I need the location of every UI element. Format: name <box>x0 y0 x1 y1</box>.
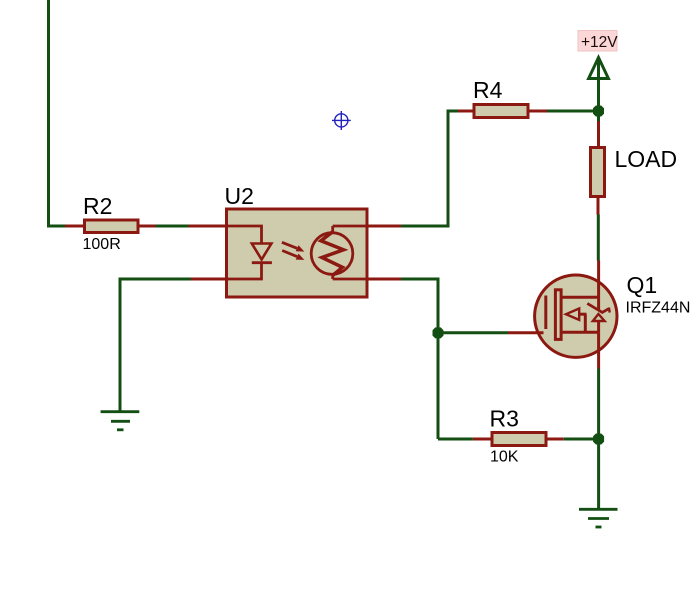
svg-text:100R: 100R <box>83 236 121 253</box>
LOAD top pin <box>597 121 600 147</box>
U2 LED top rail <box>226 226 262 243</box>
resistor LOAD body <box>591 148 605 197</box>
resistor R3 left pin <box>473 438 492 441</box>
U2 right top pin <box>369 225 402 228</box>
U2 LED triangle <box>252 244 272 260</box>
wire: horizontal net into R2 <box>47 225 65 228</box>
Q1 body diode cathode bar <box>587 303 609 312</box>
junction at gate <box>433 327 444 338</box>
U2 light arrow 1 <box>282 242 297 248</box>
resistor R3 body <box>492 433 546 446</box>
optocoupler U2 body <box>227 209 368 297</box>
power label +12V <box>578 31 617 52</box>
Q1 drain bar <box>561 296 599 299</box>
resistor R2 body <box>85 220 139 233</box>
wire: net U2 bottom to gate/R3 <box>401 279 438 439</box>
transistor Q1 body circle <box>535 275 617 357</box>
Q1 gate plate <box>544 296 547 330</box>
wire: net LOAD to Q1 drain <box>597 215 600 261</box>
resistor R4 body <box>474 105 528 118</box>
U2 bottom rail right <box>333 278 369 281</box>
Q1 substrate arrow <box>566 309 579 320</box>
wire: left vertical net from top edge <box>47 0 50 225</box>
Q1 drain pin vertical <box>597 261 600 311</box>
svg-text:R3: R3 <box>490 405 519 431</box>
wire: gate net <box>438 331 508 334</box>
wire: net R3 to source rail <box>564 438 599 441</box>
wire: net to R3 <box>438 438 473 441</box>
resistor R2 right pin <box>140 225 156 228</box>
wire: net U2 bottom-left to ground <box>120 279 191 411</box>
svg-text:+12V: +12V <box>581 34 618 51</box>
ground right <box>579 508 618 511</box>
ground left <box>101 410 140 413</box>
U2 LED cathode bar <box>252 261 272 264</box>
resistor R2 left pin <box>65 225 84 228</box>
U2 circle top stub <box>331 226 334 233</box>
svg-text:Q1: Q1 <box>627 272 658 298</box>
svg-text:U2: U2 <box>225 183 254 209</box>
power symbol +12V arrow <box>589 58 609 79</box>
wire: net R2 to U2 <box>156 225 189 228</box>
svg-text:R4: R4 <box>473 77 503 103</box>
op-to U2 left top pin <box>189 225 227 228</box>
resistor R3 right pin <box>548 438 564 441</box>
Q1 source pin vertical <box>597 332 600 368</box>
resistor R4 left pin <box>458 110 474 113</box>
junction at source/R3 <box>593 434 604 445</box>
U2 LED bottom rail <box>226 263 262 279</box>
U2 light arrow 2 <box>282 251 297 257</box>
U2 photocell circle <box>311 233 353 275</box>
junction at +12V rail <box>593 106 604 117</box>
svg-text:IRFZ44N: IRFZ44N <box>626 299 691 316</box>
wire: vertical to power terminal <box>597 60 600 121</box>
Q1 channel bar <box>555 290 561 340</box>
wire: net U2 top to R4 <box>401 111 458 226</box>
U2 top rail right <box>333 225 369 228</box>
U2 left bottom pin <box>191 278 226 281</box>
Q1 gate pin <box>508 331 544 334</box>
svg-text:10K: 10K <box>490 449 519 466</box>
U2 right bottom pin <box>369 278 402 281</box>
LOAD bottom pin <box>597 198 600 215</box>
U2 circle bottom stub <box>331 274 334 279</box>
Q1 body diode triangle <box>593 314 605 321</box>
Q1 body diode vertical link <box>597 321 600 332</box>
wire: source net down <box>597 369 600 510</box>
resistor R4 right pin <box>530 110 548 113</box>
svg-text:R2: R2 <box>83 193 112 219</box>
Q1 source bar <box>561 331 599 334</box>
svg-text:LOAD: LOAD <box>615 146 678 172</box>
origin marker (blue) <box>332 111 351 130</box>
U2 photocell zigzag <box>321 232 344 276</box>
wire: net R4 to +12V rail <box>547 110 599 113</box>
